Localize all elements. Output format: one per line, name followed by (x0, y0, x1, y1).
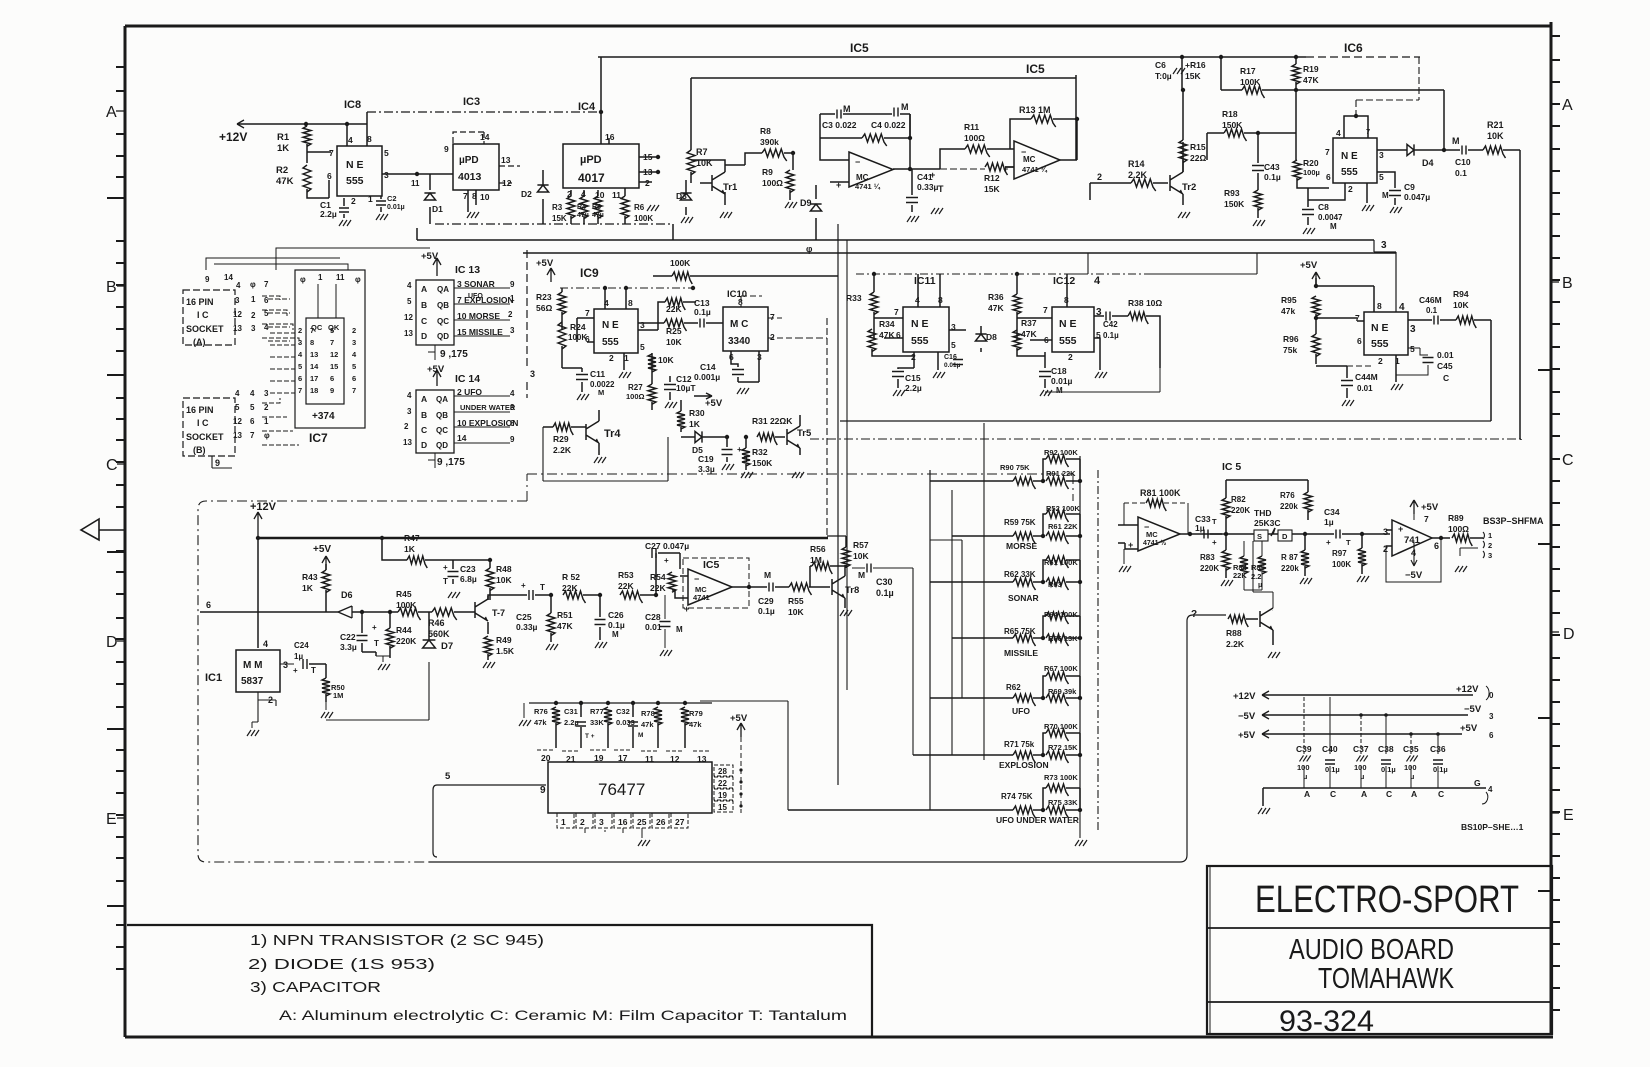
svg-text:555: 555 (1341, 167, 1358, 178)
svg-text:7: 7 (1424, 514, 1429, 524)
svg-text:4741 ¾: 4741 ¾ (1022, 165, 1048, 174)
svg-text:100Ω: 100Ω (1448, 524, 1469, 534)
svg-text:−5V: −5V (1238, 711, 1256, 722)
resistor R7 (687, 150, 695, 175)
long rail y439 dash (810, 438, 1521, 440)
+5V arrow 76477 right (737, 723, 745, 737)
resistor R57 (842, 547, 850, 567)
svg-text:25: 25 (637, 817, 647, 827)
svg-text:7: 7 (298, 386, 302, 395)
svg-text:1M: 1M (810, 555, 822, 565)
svg-text:N E: N E (911, 318, 929, 330)
ground C44M (1342, 400, 1354, 406)
svg-text:220K: 220K (1231, 506, 1250, 515)
svg-text:7: 7 (894, 307, 899, 317)
resistor R84 (1240, 556, 1248, 574)
svg-text:4: 4 (1488, 785, 1493, 794)
svg-text:8: 8 (1377, 301, 1382, 311)
svg-text:+5V: +5V (730, 713, 748, 724)
ladder stair wires (700, 540, 962, 810)
svg-text:C42: C42 (1103, 320, 1118, 329)
ground C12 (665, 402, 677, 408)
capacitor C32 (628, 722, 638, 726)
svg-text:IC9: IC9 (580, 266, 599, 280)
ground IC9 pin1 (619, 372, 631, 378)
capacitor C1 (339, 208, 349, 212)
svg-text:R77: R77 (590, 707, 604, 716)
svg-text:C45: C45 (1437, 361, 1453, 371)
svg-text:1: 1 (251, 295, 256, 304)
100K resistor above IC9 (672, 272, 692, 284)
svg-text:3: 3 (298, 338, 302, 347)
svg-text:2.2µ: 2.2µ (320, 209, 337, 219)
resistor R55 (789, 583, 812, 595)
svg-text:3.3µ: 3.3µ (340, 642, 357, 652)
svg-text:R45: R45 (396, 589, 412, 599)
svg-text:N E: N E (1059, 318, 1077, 330)
capacitor C9 (1389, 191, 1401, 196)
wire R50 loop to D7 (326, 662, 429, 720)
svg-text:SONAR: SONAR (1008, 593, 1039, 603)
svg-text:1µ: 1µ (294, 652, 303, 661)
ground C8 (1303, 228, 1315, 234)
svg-text:N E: N E (1341, 151, 1358, 162)
svg-text:D: D (106, 634, 118, 651)
svg-text:560K: 560K (428, 629, 450, 639)
svg-text:R96: R96 (1283, 334, 1299, 344)
svg-text:555: 555 (1371, 338, 1389, 350)
svg-text:R8: R8 (760, 126, 771, 136)
svg-text:2.2K: 2.2K (1128, 170, 1148, 180)
svg-text:M: M (638, 732, 643, 739)
svg-text:R78: R78 (641, 709, 655, 718)
capacitor C44M (1341, 381, 1353, 386)
svg-text:C24: C24 (294, 641, 309, 650)
resistor R31 (757, 433, 777, 445)
svg-text:R20: R20 (1303, 158, 1319, 168)
svg-text:M: M (1056, 386, 1063, 395)
svg-text:1K: 1K (302, 583, 314, 593)
svg-text:6: 6 (298, 374, 302, 383)
svg-text:C22: C22 (340, 632, 356, 642)
resistor R49 (484, 636, 492, 656)
resistor R89 (1452, 534, 1472, 546)
resistor R37 (1013, 330, 1021, 350)
svg-text:BS10P–SHE…1: BS10P–SHE…1 (1461, 822, 1524, 832)
svg-text:555: 555 (602, 337, 619, 348)
svg-text:16: 16 (618, 817, 628, 827)
svg-text:R1: R1 (277, 132, 290, 143)
svg-text:D: D (1282, 532, 1288, 541)
resistor R2 (303, 165, 311, 192)
svg-text:QD: QD (436, 441, 448, 450)
op-amp U1 MC4741 first (849, 152, 893, 187)
wire rail3 to IC12 4 (1067, 253, 1088, 274)
svg-text:+5V: +5V (427, 364, 445, 375)
diode D1 (424, 193, 435, 200)
svg-text:3: 3 (251, 324, 256, 333)
diode D8 (975, 334, 986, 341)
svg-text:QD: QD (437, 332, 449, 341)
svg-text:27: 27 (675, 817, 685, 827)
svg-text:10K: 10K (853, 551, 869, 561)
svg-text:10: 10 (480, 192, 490, 202)
svg-text:2: 2 (352, 326, 356, 335)
svg-text:2: 2 (770, 332, 775, 342)
ground MM5837 (247, 730, 259, 736)
svg-text:C: C (1562, 452, 1574, 469)
resistor R33 (870, 292, 878, 315)
svg-text:(B): (B) (193, 445, 206, 455)
svg-text:11: 11 (336, 273, 345, 282)
svg-text:D: D (421, 440, 427, 450)
svg-text:4: 4 (1336, 128, 1341, 138)
svg-text:4741: 4741 (693, 593, 710, 602)
resistor R9 (786, 170, 794, 193)
svg-text:R61 22K: R61 22K (1048, 522, 1078, 531)
svg-text:C35: C35 (1403, 744, 1419, 754)
svg-text:C40: C40 (1322, 744, 1338, 754)
resistor R48 (486, 568, 494, 591)
svg-text:15K: 15K (552, 214, 567, 223)
wire stair IC14 to Tr4 region (543, 427, 668, 481)
svg-text:M: M (901, 102, 909, 112)
svg-text:R25: R25 (666, 326, 682, 336)
svg-text:4: 4 (510, 389, 515, 398)
svg-text:100Ω: 100Ω (762, 178, 783, 188)
svg-text:220K: 220K (396, 636, 417, 646)
svg-text:+5V: +5V (1460, 723, 1478, 734)
long rail y421 (840, 420, 1491, 422)
ladder vertical bus x984 (983, 423, 985, 760)
svg-text:47K: 47K (276, 176, 294, 187)
svg-text:R46: R46 (428, 618, 445, 628)
arrow +5V near C12 (694, 393, 712, 399)
svg-text:26: 26 (656, 817, 666, 827)
svg-text:C2: C2 (387, 194, 397, 203)
svg-text:R9: R9 (762, 167, 773, 177)
svg-text:S: S (1257, 532, 1262, 541)
svg-text:M: M (858, 570, 865, 580)
svg-text:D1: D1 (432, 204, 443, 214)
svg-text:QA: QA (436, 395, 448, 404)
svg-text:3: 3 (1379, 150, 1384, 160)
svg-text:10K: 10K (666, 337, 682, 347)
resistor R87 (1301, 550, 1309, 568)
svg-text:2.2µ: 2.2µ (905, 383, 922, 393)
ground C1 (339, 220, 351, 226)
svg-text:3: 3 (352, 338, 356, 347)
op-amp U-IC8 timer NE555 (337, 146, 382, 196)
svg-text:−: − (694, 574, 699, 584)
svg-text:25K3C: 25K3C (1254, 518, 1280, 528)
svg-text:D: D (1563, 626, 1575, 643)
svg-text:R54: R54 (650, 572, 666, 582)
long vertical bus x847 (846, 240, 848, 690)
svg-text:R29: R29 (553, 434, 569, 444)
svg-text:0.01µ: 0.01µ (944, 362, 961, 369)
22K resistor IC9 out (665, 298, 685, 310)
svg-text:4: 4 (263, 639, 268, 649)
capacitor C15 (892, 372, 904, 377)
diode D2 (537, 185, 548, 192)
IC13 decoder block (416, 280, 454, 345)
svg-text:14: 14 (480, 132, 490, 142)
svg-text:A: A (1361, 789, 1367, 799)
op wire IC5 top rail (598, 56, 1306, 58)
left margin pointer arrow (81, 519, 125, 540)
wire corner to R88 (1187, 615, 1226, 621)
svg-text:R49: R49 (496, 635, 512, 645)
svg-text:555: 555 (346, 175, 364, 187)
diode D4 (1407, 144, 1414, 155)
svg-text:3: 3 (235, 296, 240, 305)
svg-text:C37: C37 (1353, 744, 1369, 754)
ground C41 (907, 216, 919, 222)
svg-text:9: 9 (215, 458, 220, 468)
svg-text:3340: 3340 (728, 336, 751, 347)
svg-text:φ: φ (300, 275, 306, 284)
long wire row A to B rail 1 (417, 239, 1374, 241)
capacitor C40 (1329, 697, 1331, 754)
svg-text:+: + (930, 170, 935, 180)
ground connector (1455, 566, 1467, 572)
svg-text:22Ω: 22Ω (1190, 153, 1206, 163)
svg-text:N E: N E (346, 159, 364, 171)
svg-text:R48: R48 (496, 564, 512, 574)
svg-text:+12V: +12V (1233, 691, 1256, 702)
dash rail above IC11 (856, 273, 1151, 275)
IC14 decoder block (416, 390, 454, 453)
svg-text:1µ: 1µ (1324, 517, 1334, 527)
svg-text:MC: MC (1023, 155, 1036, 164)
resistor R11 (965, 145, 990, 157)
svg-text:1µ: 1µ (1195, 523, 1205, 533)
svg-text:12: 12 (233, 310, 242, 319)
svg-text:R44: R44 (396, 625, 412, 635)
svg-text:13: 13 (403, 438, 412, 447)
svg-text:R18: R18 (1222, 109, 1238, 119)
capacitor C10 (1462, 146, 1466, 155)
svg-text:6: 6 (1434, 541, 1439, 551)
741 feedback loop (1386, 538, 1441, 582)
ground C22 R44 (378, 664, 390, 670)
svg-text:1: 1 (510, 294, 515, 303)
svg-text:3: 3 (1383, 527, 1388, 537)
wires sockets to IC7 nest (206, 258, 348, 270)
svg-text:47K: 47K (1021, 329, 1037, 339)
svg-text:B: B (421, 300, 427, 310)
svg-text:R55: R55 (788, 596, 804, 606)
svg-text:1K: 1K (689, 419, 701, 429)
diode D7 (423, 640, 436, 648)
+5V arrow IC9 (547, 268, 555, 282)
svg-text:SOCKET: SOCKET (186, 324, 224, 334)
svg-text:2: 2 (508, 310, 513, 319)
capacitor C30 (867, 564, 871, 573)
svg-text:MC: MC (1146, 530, 1158, 539)
resistor R3 (567, 196, 575, 219)
resistor R88 (1228, 615, 1248, 627)
IC5 block outline wire (691, 75, 1076, 160)
svg-text:T: T (540, 583, 545, 592)
resistor R13 (1031, 115, 1056, 127)
svg-text:3: 3 (510, 403, 515, 412)
resistor R43 (322, 570, 330, 593)
capacitor C46M (1434, 316, 1438, 325)
svg-text:T: T (311, 666, 316, 675)
ground power rail (1258, 808, 1270, 814)
svg-text:R4: R4 (577, 204, 586, 211)
svg-text:3: 3 (1488, 551, 1492, 560)
svg-text:13: 13 (404, 329, 413, 338)
svg-text:47k: 47k (1281, 306, 1295, 316)
svg-text:6.8µ: 6.8µ (460, 574, 477, 584)
resistor R95 (1312, 296, 1320, 316)
svg-text:N E: N E (1371, 322, 1389, 334)
feedback resistor above op-amp1 (862, 134, 887, 146)
svg-text:3: 3 (640, 320, 645, 330)
+5V arrow 4th 555 (1312, 272, 1320, 286)
resistor R53 (620, 591, 643, 603)
svg-text:47K: 47K (1303, 75, 1319, 85)
svg-text:9: 9 (444, 144, 449, 154)
resistor R85 (1258, 556, 1266, 574)
svg-text:T:0µ: T:0µ (1155, 71, 1172, 81)
svg-text:R94: R94 (1453, 289, 1469, 299)
svg-text:16 PIN: 16 PIN (186, 405, 214, 415)
svg-text:R15: R15 (1190, 142, 1206, 152)
resistor R97 (1358, 548, 1366, 566)
ladder right vertical dash x1098 (1097, 470, 1099, 833)
resistor R6 (621, 196, 629, 219)
ground C15 (893, 390, 905, 396)
svg-text:+: + (1212, 538, 1217, 547)
svg-text:+5V: +5V (1300, 260, 1318, 271)
svg-text:M C: M C (730, 319, 748, 330)
16 pin IC socket A (183, 290, 235, 345)
svg-text:3: 3 (599, 817, 604, 827)
svg-text:10K: 10K (788, 607, 804, 617)
svg-text:100Ω: 100Ω (626, 392, 645, 401)
resistor R76 (552, 707, 560, 725)
svg-text:T: T (938, 184, 944, 194)
svg-text:7: 7 (250, 431, 255, 440)
svg-text:0.1µ: 0.1µ (1433, 765, 1448, 774)
svg-text:93-324: 93-324 (1279, 1005, 1374, 1038)
svg-text:4: 4 (348, 135, 353, 145)
svg-text:(A): (A) (193, 337, 206, 347)
svg-text:BS3P–SHFMA: BS3P–SHFMA (1483, 516, 1544, 526)
+5V arrow R43 (322, 556, 330, 570)
svg-text:15 MISSILE: 15 MISSILE (457, 327, 503, 337)
IC4 uPD4017 (563, 144, 639, 188)
svg-text:2.2µ: 2.2µ (564, 718, 579, 727)
resistor R38 (1128, 312, 1148, 324)
svg-text:9: 9 (540, 785, 546, 796)
svg-text:0.0047: 0.0047 (1318, 213, 1343, 222)
svg-text:I C: I C (197, 310, 209, 320)
wire IC8 to IC4 dash-dot (367, 111, 601, 113)
svg-text:0.1: 0.1 (1426, 306, 1438, 315)
svg-text:2: 2 (1097, 172, 1102, 182)
resistor R24 (558, 322, 566, 349)
resistor R93 (1254, 190, 1262, 210)
svg-text:C18: C18 (1051, 366, 1067, 376)
svg-text:6: 6 (1489, 731, 1494, 740)
IC7 inner box (306, 318, 344, 404)
svg-text:TOMAHAWK: TOMAHAWK (1318, 963, 1455, 995)
svg-text:13: 13 (310, 350, 318, 359)
svg-text:A: A (421, 394, 427, 404)
svg-text:IC3: IC3 (463, 96, 480, 108)
svg-text:0.01µ: 0.01µ (387, 204, 405, 211)
resistor R50 (322, 678, 330, 696)
svg-text:φ: φ (264, 431, 270, 440)
svg-text:R76: R76 (534, 707, 548, 716)
ground 76477 bottom (638, 840, 650, 846)
svg-text:0.1µ: 0.1µ (1103, 331, 1119, 340)
svg-text:R51: R51 (557, 610, 573, 620)
resistor R51 (547, 613, 555, 636)
svg-text:1: 1 (318, 273, 323, 282)
ground mixer op-amp (1119, 566, 1131, 572)
resistor R96 (1312, 334, 1320, 357)
svg-text:C: C (1386, 789, 1392, 799)
capacitor C23 (448, 572, 459, 577)
svg-text:76477: 76477 (598, 780, 645, 799)
svg-text:R6: R6 (634, 203, 645, 212)
svg-text:741: 741 (1404, 535, 1421, 546)
capacitor C11 (576, 375, 588, 380)
svg-text:+5V: +5V (1421, 502, 1439, 513)
svg-text:Tr5: Tr5 (797, 428, 812, 439)
ground IC3 (467, 212, 479, 218)
resistor R83 (1222, 550, 1230, 570)
svg-text:M: M (1382, 191, 1389, 200)
ground R32 (741, 472, 753, 478)
svg-text:10: 10 (595, 190, 605, 200)
4th NE555 timer (1364, 312, 1408, 355)
vertical x1257 (1151, 253, 1257, 274)
svg-text:A: A (1411, 789, 1417, 799)
svg-text:Tr2: Tr2 (1182, 182, 1196, 193)
svg-text:T: T (443, 577, 448, 586)
svg-text:150K: 150K (1222, 120, 1243, 130)
ground Tr4 (594, 457, 606, 463)
svg-text:MISSILE: MISSILE (1004, 648, 1038, 658)
svg-text:12: 12 (233, 417, 242, 426)
svg-text:0.01µ: 0.01µ (1051, 376, 1073, 386)
svg-text:5: 5 (298, 362, 302, 371)
capacitor C28 (660, 622, 671, 627)
svg-text:M: M (764, 570, 771, 580)
svg-text:I C: I C (197, 418, 209, 428)
svg-text:3: 3 (1489, 712, 1494, 721)
svg-text:C30: C30 (876, 577, 893, 587)
svg-text:5837: 5837 (241, 676, 264, 687)
svg-text:5: 5 (640, 342, 645, 352)
resistor R45 (398, 608, 421, 620)
svg-text:+12V: +12V (219, 130, 247, 144)
+5V arrow above IC13 (433, 258, 441, 276)
resistor R15 (1179, 140, 1187, 163)
svg-text:5: 5 (1379, 172, 1384, 182)
svg-text:10µT: 10µT (676, 383, 696, 393)
svg-text:555: 555 (911, 335, 929, 347)
svg-text:0.1µ: 0.1µ (1325, 765, 1340, 774)
dash-dot rail through IC9 top (560, 287, 695, 289)
